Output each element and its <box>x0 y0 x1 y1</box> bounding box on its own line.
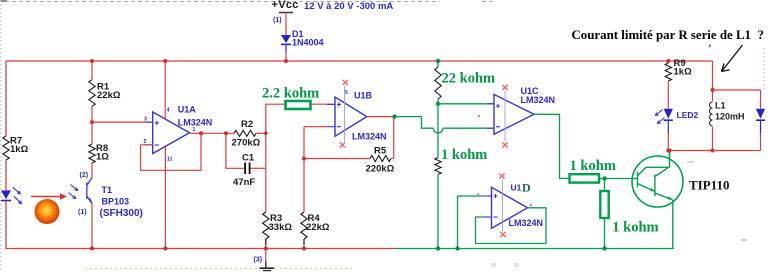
svg-text:22 kohm: 22 kohm <box>442 71 496 87</box>
svg-text:U1A: U1A <box>178 105 197 115</box>
svg-text:Courant limité par R serie de: Courant limité par R serie de L1 ? <box>572 28 764 42</box>
svg-text:22kΩ: 22kΩ <box>306 222 330 233</box>
svg-text:U1: U1 <box>511 183 522 193</box>
svg-text:BP103: BP103 <box>102 197 130 207</box>
svg-text:R5: R5 <box>374 146 387 157</box>
svg-text:47nF: 47nF <box>233 177 255 188</box>
svg-text:2.2 kohm: 2.2 kohm <box>262 86 319 102</box>
svg-text:(2): (2) <box>80 172 89 179</box>
svg-text:+Vcc: +Vcc <box>272 0 299 11</box>
svg-text:33kΩ: 33kΩ <box>269 222 293 233</box>
svg-text:C1: C1 <box>242 153 255 164</box>
svg-text:11: 11 <box>167 157 173 163</box>
svg-text:5: 5 <box>345 90 348 96</box>
svg-text:22kΩ: 22kΩ <box>97 90 121 101</box>
svg-text:(SFH300): (SFH300) <box>100 208 143 219</box>
svg-text:1N4004: 1N4004 <box>292 38 324 48</box>
svg-text:3: 3 <box>144 117 147 123</box>
svg-text:(1): (1) <box>273 17 282 24</box>
svg-text:1Ω: 1Ω <box>96 152 109 163</box>
svg-text:TIP110: TIP110 <box>689 178 729 193</box>
svg-text:L1: L1 <box>715 101 726 111</box>
svg-text:1 kohm: 1 kohm <box>570 158 616 174</box>
svg-text:270kΩ: 270kΩ <box>232 138 261 149</box>
svg-text:LM324N: LM324N <box>352 132 387 142</box>
svg-text:T1: T1 <box>102 185 113 195</box>
svg-text:1kΩ: 1kΩ <box>10 144 29 155</box>
svg-text:LM324N: LM324N <box>509 218 544 228</box>
svg-text:LED2: LED2 <box>677 110 699 120</box>
svg-text:1kΩ: 1kΩ <box>674 67 693 78</box>
svg-text:(3): (3) <box>254 257 263 264</box>
svg-text:120mH: 120mH <box>715 112 745 122</box>
svg-text:LM324N: LM324N <box>521 95 556 105</box>
svg-text:1: 1 <box>193 127 196 133</box>
svg-text:U1B: U1B <box>354 91 373 101</box>
svg-text:12 V à 20 V -300 mA: 12 V à 20 V -300 mA <box>304 1 393 12</box>
svg-text:1 kohm: 1 kohm <box>441 147 487 163</box>
svg-text:1 kohm: 1 kohm <box>612 220 658 236</box>
svg-text:(1): (1) <box>78 209 87 216</box>
svg-text:R2: R2 <box>241 119 253 130</box>
svg-text:220kΩ: 220kΩ <box>366 164 395 175</box>
svg-text:D: D <box>522 181 531 195</box>
svg-text:2: 2 <box>144 139 147 145</box>
svg-text:LM324N: LM324N <box>178 118 213 128</box>
